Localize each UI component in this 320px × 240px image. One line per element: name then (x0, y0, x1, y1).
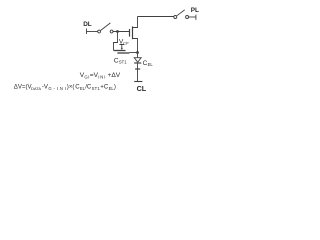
capacitor C_ST1 top plate (114, 50, 126, 52)
wire diode to plate (137, 64, 139, 69)
node G junction dot (116, 30, 119, 33)
equation V_GI = V_INI + delta V (80, 72, 121, 80)
svg-text:INI: INI (98, 75, 106, 80)
transistor T1 channel bar (132, 26, 134, 39)
switch S1 right contact circle (110, 30, 113, 33)
capacitor C_ST1 value label (114, 58, 127, 65)
svg-text:PL: PL (191, 7, 199, 14)
lower plate bar (135, 68, 140, 70)
DL terminal bar (86, 29, 88, 35)
voltage label V_CP (119, 39, 129, 46)
wire gate node down to capacitor (114, 32, 118, 51)
transistor T1 drain lead (133, 17, 138, 28)
wire DL to switch (87, 31, 98, 33)
switch S1 left contact circle (98, 30, 101, 33)
node S junction dot (136, 51, 139, 54)
switch S2 lever (177, 10, 185, 16)
svg-text:ΔV=(V: ΔV=(V (14, 84, 33, 91)
svg-text:EL: EL (148, 62, 154, 67)
svg-text:)×(: )×( (67, 84, 75, 91)
svg-text:ST1: ST1 (119, 60, 127, 65)
switch S1 lever (101, 23, 111, 31)
switch S2 right contact circle (186, 16, 189, 19)
wire source node to diode (137, 53, 139, 58)
capacitor C_ST1 bottom plate (117, 52, 129, 54)
OLED diode D1 triangle (134, 58, 141, 63)
OLED diode D1 cathode bar (134, 62, 141, 64)
svg-text:DATA: DATA (31, 86, 41, 91)
svg-text:): ) (114, 84, 116, 91)
svg-text:+ΔV: +ΔV (108, 72, 121, 79)
wire capacitor to source node (129, 52, 137, 54)
switch S2 left contact circle (174, 16, 177, 19)
wire switch to gate node (113, 31, 130, 33)
svg-text:G-INI: G-INI (48, 86, 68, 91)
voltage arrow across C_ST1 (119, 45, 124, 51)
CL terminal bar (134, 81, 142, 83)
svg-text:CL: CL (137, 84, 147, 93)
equation delta V formula (14, 84, 116, 92)
capacitance label C_EL (143, 60, 154, 67)
wire top rail to PL switch (138, 16, 174, 18)
wire plate to CL terminal (137, 70, 139, 82)
PL terminal bar (195, 15, 197, 20)
wire switch to PL terminal (189, 16, 196, 18)
transistor T1 source lead (133, 39, 138, 53)
svg-text:+C: +C (100, 84, 109, 91)
svg-text:DL: DL (83, 21, 92, 28)
svg-text:ST1: ST1 (92, 86, 101, 91)
transistor T1 gate bar (129, 29, 131, 37)
